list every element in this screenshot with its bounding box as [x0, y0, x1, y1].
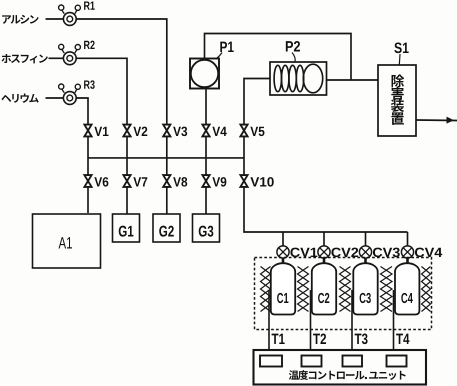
furnace P2 coil loops	[274, 64, 323, 93]
scrubber S1 box	[378, 65, 416, 136]
wire inlet to regulator R3	[46, 97, 64, 99]
cylinder C4	[395, 263, 419, 314]
control unit terminal 1	[260, 356, 282, 367]
wire V8 to G2	[166, 187, 168, 214]
wire header stem CV2	[323, 232, 325, 246]
label C3	[360, 293, 371, 303]
wire inlet to regulator R2	[49, 57, 64, 59]
control unit terminal 4	[387, 356, 407, 367]
label R3	[84, 80, 95, 89]
label S1	[394, 43, 408, 54]
pump P1 box	[190, 59, 219, 89]
gas inlet label ホスフィン	[2, 54, 12, 63]
pump P1 circle	[191, 60, 218, 87]
cylinder cabinet dashed box	[255, 258, 432, 330]
wire V5 to manifold	[243, 137, 245, 176]
label V4	[212, 127, 226, 136]
label V2	[133, 127, 147, 136]
regulator R3	[59, 84, 81, 104]
box G1	[113, 214, 140, 242]
control unit terminal 2	[302, 356, 322, 367]
label R1	[84, 1, 95, 9]
wire S1 outlet arrow	[416, 119, 457, 122]
label V3	[173, 127, 187, 137]
cylinder C2	[312, 263, 336, 314]
wire V9 to G3	[205, 187, 207, 214]
label CV4	[415, 248, 442, 258]
wire P1 to V4	[205, 89, 207, 125]
cylinder C1	[271, 263, 295, 314]
leader S1	[398, 54, 401, 65]
wire CV4 to cylinder C4	[406, 258, 409, 264]
wire V7 to G1	[126, 187, 128, 214]
cylinder C3	[353, 263, 377, 314]
wire P1 bypass to junction	[205, 34, 352, 81]
wire CV3 to cylinder C3	[364, 258, 367, 264]
box G2	[153, 214, 180, 242]
label G2	[159, 226, 174, 237]
label G3	[199, 226, 214, 237]
heater coil	[261, 267, 271, 312]
wire R1 output to V3 column	[76, 19, 167, 125]
check valve CV3	[359, 246, 371, 258]
label V5	[250, 127, 264, 136]
heater coil	[422, 267, 431, 312]
wire header stem CV4	[407, 232, 409, 246]
label CV2	[331, 248, 358, 258]
valve V4	[202, 125, 209, 137]
wire header stem CV3	[365, 232, 367, 246]
heater coil	[340, 267, 351, 312]
leader P1	[216, 53, 223, 60]
furnace P2 box	[270, 62, 327, 95]
scrubber S1 vertical text 除害装置	[391, 74, 404, 125]
thermocouple T2 wire	[310, 290, 312, 350]
label P2	[286, 41, 300, 51]
label V10	[250, 177, 273, 187]
valve V6	[84, 175, 91, 187]
box G3	[193, 214, 220, 242]
wire CV2 to cylinder C2	[323, 258, 326, 264]
wire header stem CV1	[282, 232, 284, 246]
check valve CV2	[318, 246, 330, 258]
label R2	[84, 41, 95, 49]
label C2	[318, 293, 329, 303]
heater coil	[381, 267, 393, 312]
heater coil	[298, 267, 309, 312]
wire V3 to manifold	[166, 137, 168, 176]
wire inlet to regulator R1	[46, 18, 64, 20]
wire V5 column to P2 inlet	[244, 79, 270, 125]
label V1	[94, 127, 108, 136]
thermocouple T1 wire	[268, 290, 270, 350]
label CV3	[373, 248, 400, 258]
label G1	[119, 226, 134, 237]
temperature control unit box	[254, 350, 427, 385]
valve V9	[202, 175, 209, 187]
label T4	[396, 334, 409, 344]
gas inlet label ヘリウム	[1, 95, 11, 102]
label C1	[277, 293, 288, 303]
wire R2 output to V2 column	[76, 58, 127, 124]
thermocouple T3 wire	[351, 290, 353, 350]
label V8	[173, 177, 187, 187]
valve V2	[123, 125, 130, 137]
valve V7	[123, 175, 130, 187]
wire V2 to manifold	[126, 137, 128, 176]
valve V10	[240, 175, 247, 187]
wire CV1 to cylinder C1	[282, 258, 285, 264]
wire V4 to manifold	[205, 137, 207, 176]
control unit label 温度コントロール.ユニット	[289, 370, 299, 379]
regulator R2	[59, 44, 81, 64]
label V9	[212, 177, 226, 187]
check valve CV1	[277, 246, 289, 258]
valve V5	[240, 125, 247, 137]
valve V1	[84, 125, 91, 137]
wire manifold	[88, 157, 244, 159]
wire V1 to manifold	[87, 137, 89, 176]
regulator R1	[59, 5, 81, 25]
label T2	[313, 334, 326, 344]
label CV1	[290, 248, 317, 258]
wire R3 output to V1 column	[76, 98, 88, 125]
check valve CV4	[401, 246, 413, 258]
control unit terminal 3	[343, 356, 363, 367]
label T1	[272, 334, 285, 344]
box A1	[33, 214, 101, 268]
leader P2	[292, 53, 295, 63]
valve V3	[163, 125, 170, 137]
thermocouple T4 wire	[393, 290, 395, 350]
label V7	[133, 177, 147, 186]
gas inlet label アルシン	[2, 15, 11, 24]
label P1	[220, 42, 233, 52]
label T3	[355, 334, 368, 345]
wire V6 to A1	[87, 187, 89, 213]
valve V8	[163, 175, 170, 187]
label A1	[59, 237, 72, 248]
wire V10 to cylinder header	[244, 187, 408, 232]
label V6	[94, 177, 108, 187]
wire P2 to S1	[327, 79, 379, 81]
label C4	[401, 293, 413, 303]
